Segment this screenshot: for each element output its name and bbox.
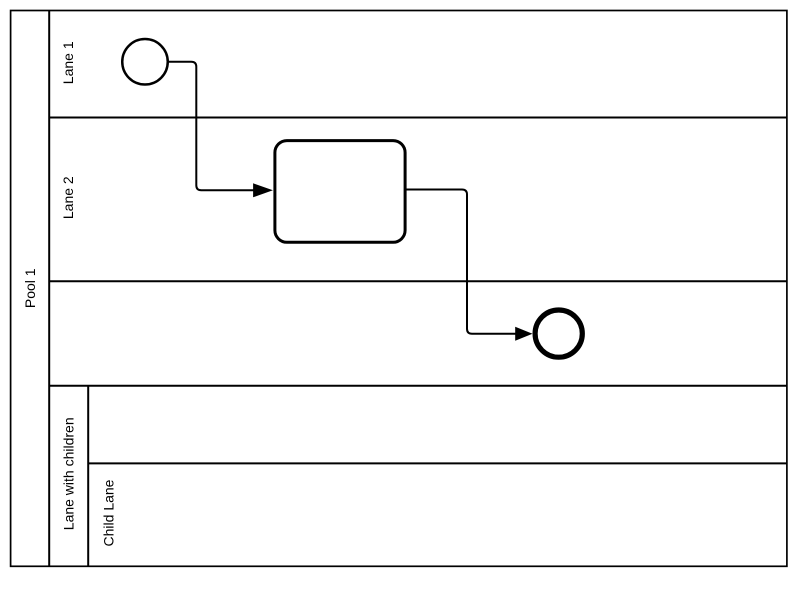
sequence flow: start event to task (wire) xyxy=(168,62,255,191)
child lane divider xyxy=(88,462,787,464)
svg-text:Pool 1: Pool 1 xyxy=(22,268,38,308)
svg-text:Lane 2: Lane 2 xyxy=(60,176,76,219)
svg-text:Child Lane: Child Lane xyxy=(101,479,117,546)
lane divider Lane 2 / Lane 3 xyxy=(49,280,787,282)
lane divider Lane 1 / Lane 2 xyxy=(49,117,787,119)
task (rounded rectangle) xyxy=(275,141,405,243)
svg-text:Lane with children: Lane with children xyxy=(61,417,77,530)
end event (thick circle) xyxy=(535,310,582,357)
arrowhead into end event xyxy=(515,327,532,341)
pool label separator xyxy=(48,11,50,567)
child lanes left border xyxy=(87,386,89,567)
svg-text:Lane 1: Lane 1 xyxy=(60,41,76,84)
sequence flow: task to end event (wire) xyxy=(405,190,517,334)
lane divider Lane 3 / Lane with children xyxy=(49,385,787,387)
arrowhead into task xyxy=(253,183,273,197)
start event (circle) xyxy=(122,39,168,85)
